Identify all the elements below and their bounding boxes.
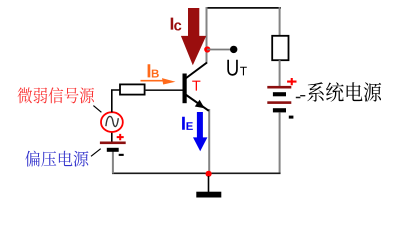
AC source sine symbol — [106, 116, 118, 126]
transistor emitter arrowhead — [195, 100, 205, 109]
label IB — [148, 64, 159, 77]
wire AC-source-to-B2 — [111, 132, 113, 142]
label IE — [182, 117, 193, 130]
current arrow IB — [141, 80, 166, 82]
battery B1 plate + long 2 — [267, 101, 291, 104]
wire right vertical to resistor — [279, 7, 281, 37]
wire top horizontal collector-to-Rc — [206, 7, 282, 9]
wire Rc-to-battery — [279, 60, 281, 86]
label T — [192, 81, 200, 91]
resistor Rc — [272, 36, 288, 60]
wire base — [145, 89, 183, 91]
battery B2 plate - short — [107, 148, 119, 152]
wire junction-to-UT-node — [207, 49, 231, 51]
node ground junction (red dot) — [206, 171, 212, 177]
wire ground stem — [208, 176, 210, 192]
wire B1-to-bottom — [279, 112, 281, 174]
current arrow IE — [193, 112, 207, 151]
pointer line from weak-signal-source label to AC source — [93, 106, 101, 113]
node UT (black dot) — [230, 46, 237, 53]
label UT — [227, 60, 247, 76]
transistor collector lead — [186, 63, 208, 79]
ground symbol — [196, 192, 221, 198]
wire left vertical below bias battery — [112, 152, 114, 174]
current arrow Ic — [181, 8, 206, 65]
wire bottom horizontal — [112, 172, 281, 174]
label - of B2 — [119, 154, 124, 156]
pointer squiggle from system label to battery B1 — [296, 96, 306, 98]
transistor emitter lead — [186, 95, 209, 111]
battery B2 bias plate + long — [100, 142, 126, 145]
wire collector vertical — [206, 7, 208, 63]
node collector junction (red dot) — [204, 46, 210, 52]
wire corner-to-AC-source — [112, 90, 121, 112]
pointer line from bias label to battery B2 — [91, 149, 101, 157]
AC source V1 circle — [101, 112, 123, 132]
resistor Rb — [120, 84, 145, 94]
battery B1 plate - short — [273, 92, 286, 96]
label bias power supply (blue CJK) — [25, 151, 88, 167]
label system power supply (black CJK) — [307, 82, 381, 102]
wire emitter-to-ground-junction — [208, 109, 210, 174]
label Ic — [171, 18, 182, 31]
label + of B1 — [287, 78, 296, 85]
battery B1 system-power plate + long — [267, 86, 291, 89]
label weak signal source (red CJK) — [18, 87, 95, 103]
transistor T base bar — [183, 74, 187, 104]
battery B1 plate - short 2 — [273, 108, 286, 112]
label + of B2 — [117, 134, 124, 140]
label - of B1 — [289, 116, 294, 119]
